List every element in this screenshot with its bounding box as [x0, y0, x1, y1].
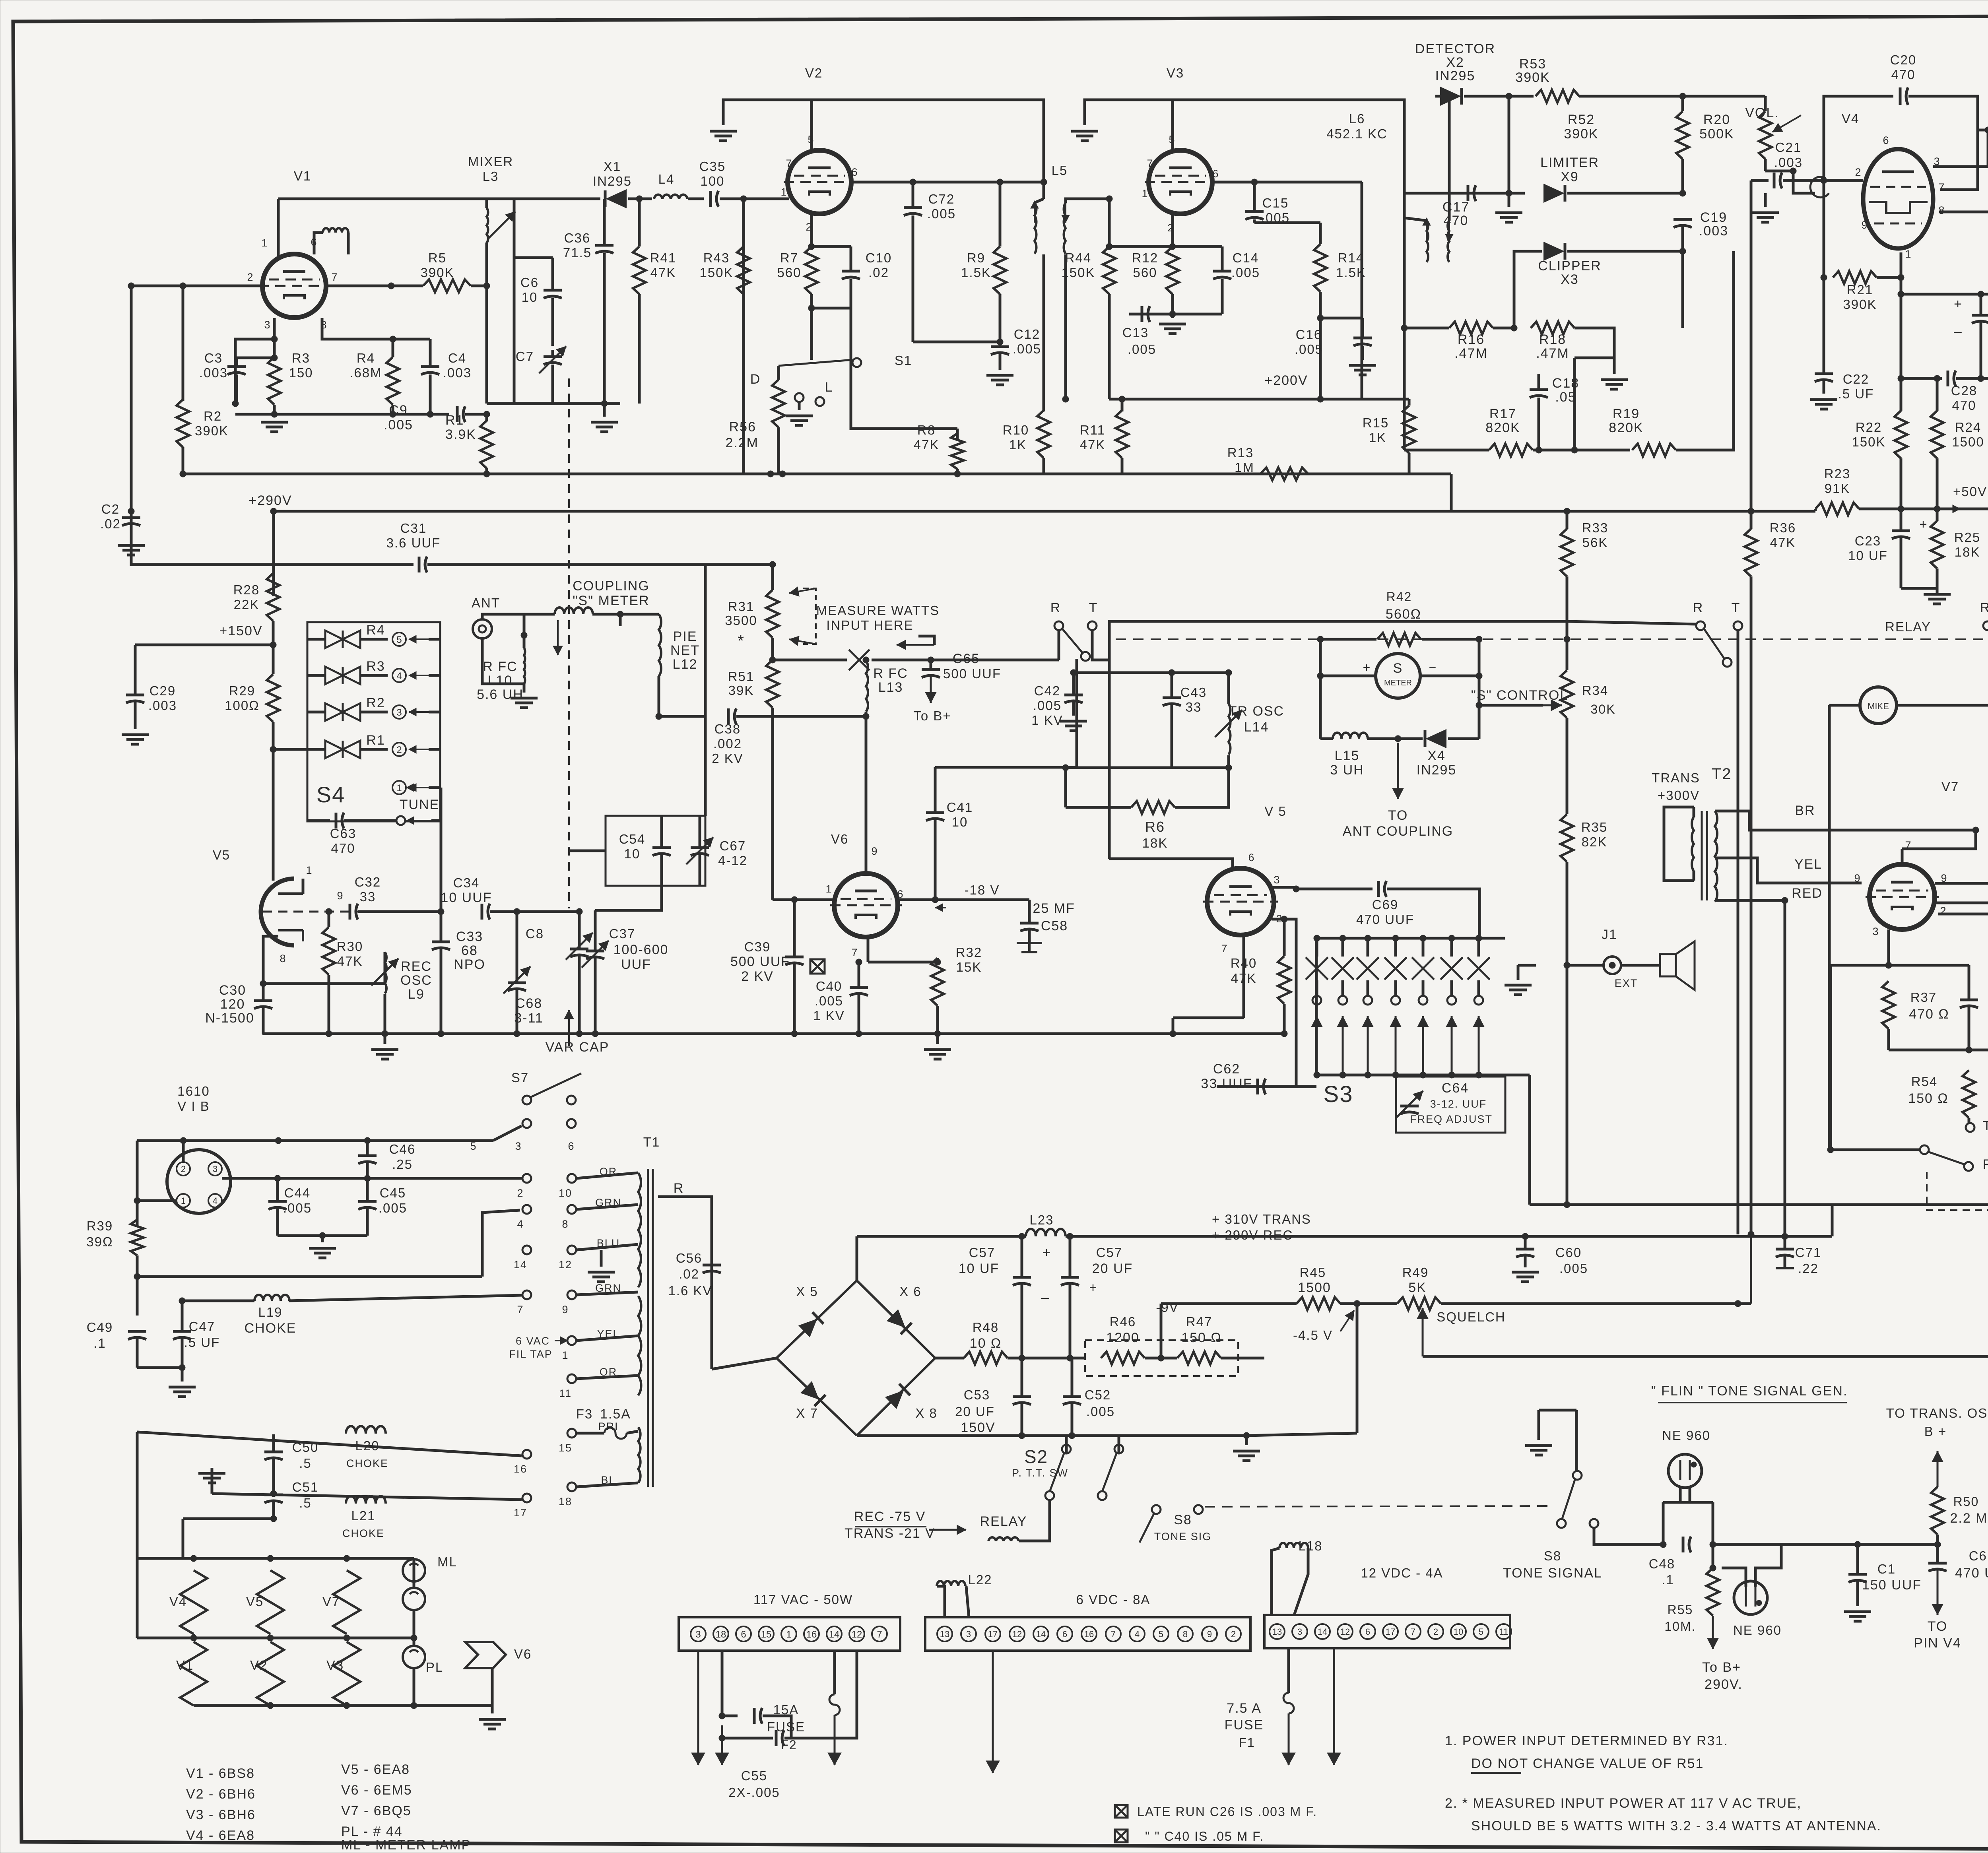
arrow S3 wiper	[1367, 1016, 1369, 1073]
svg-text:C15: C15	[1262, 196, 1289, 210]
wire	[429, 374, 432, 414]
wire	[273, 405, 276, 414]
svg-text:L21: L21	[351, 1508, 375, 1523]
junction	[1985, 127, 1988, 133]
svg-text:FIL TAP: FIL TAP	[509, 1348, 553, 1360]
svg-text:X 8: X 8	[915, 1406, 938, 1420]
junction	[1169, 669, 1175, 676]
arrow input here	[897, 644, 934, 646]
diode X8	[885, 1384, 910, 1409]
wire C56 net	[658, 1197, 712, 1369]
junction	[1070, 669, 1077, 676]
wire	[603, 199, 606, 245]
svg-text:VAR CAP: VAR CAP	[546, 1040, 610, 1055]
wire L3 down	[485, 243, 488, 404]
svg-text:R54: R54	[1911, 1074, 1938, 1089]
svg-text:470 UUF: 470 UUF	[1955, 1566, 1988, 1581]
junction	[1564, 1201, 1570, 1208]
svg-text:C31: C31	[400, 521, 427, 536]
capacitor C53	[1013, 1395, 1031, 1398]
heater V7	[333, 1570, 360, 1634]
svg-text:L12: L12	[673, 657, 698, 672]
tube V7	[1866, 864, 1939, 929]
bridge X6	[857, 1281, 935, 1358]
wire S3 top bus	[1316, 937, 1505, 940]
svg-text:D: D	[750, 372, 761, 387]
arrow R34 wiper	[1543, 704, 1562, 706]
junction	[592, 1030, 598, 1037]
wire	[793, 964, 796, 1034]
wire	[1477, 980, 1480, 996]
ground C47	[169, 1387, 196, 1397]
svg-text:C50: C50	[292, 1440, 319, 1455]
junction	[1119, 396, 1125, 402]
wire	[1784, 1236, 1786, 1249]
wire	[1936, 588, 1939, 593]
terminal 12VDC 11	[1496, 1624, 1511, 1639]
svg-text:10M.: 10M.	[1664, 1619, 1696, 1634]
junction	[767, 471, 774, 477]
wire	[628, 198, 652, 200]
arrow contact 5	[409, 638, 429, 640]
wire V2 pin5 up	[810, 100, 813, 150]
svg-text:R6: R6	[1145, 819, 1165, 835]
junction	[769, 657, 776, 663]
resistor R48	[964, 1352, 1008, 1364]
wire	[384, 1034, 386, 1044]
svg-text:14: 14	[1036, 1629, 1046, 1639]
wire	[934, 820, 937, 900]
svg-text:MIXER: MIXER	[468, 154, 514, 169]
svg-text:.25 MF: .25 MF	[1028, 901, 1075, 916]
terminal 12VDC 12	[1338, 1624, 1353, 1639]
arrow L6b	[1448, 219, 1450, 242]
capacitor C7 variable arrow	[539, 346, 566, 373]
wire measure watts	[773, 659, 847, 662]
junction	[1476, 702, 1482, 708]
wire	[136, 1637, 139, 1640]
capacitor C13	[1141, 306, 1143, 322]
arrow L5 down	[1065, 201, 1066, 223]
ground clipper	[1601, 380, 1628, 389]
wire R31 top	[771, 565, 774, 590]
arrow contact 3	[409, 711, 429, 713]
svg-text:13: 13	[1272, 1627, 1282, 1637]
capacitor C30	[254, 999, 272, 1002]
junction	[514, 1030, 520, 1037]
svg-text:EXT: EXT	[1615, 977, 1638, 989]
wire mike left	[1829, 704, 1860, 707]
junction	[344, 1702, 350, 1709]
wire	[1408, 453, 1411, 474]
svg-text:8: 8	[280, 953, 286, 964]
resistor R43	[737, 246, 750, 294]
svg-text:18: 18	[716, 1629, 726, 1640]
svg-text:7: 7	[331, 271, 338, 283]
resistor R21	[1833, 271, 1877, 284]
arrow 117 term18	[721, 1725, 723, 1765]
heater V5	[257, 1570, 284, 1634]
wire heater bottom rail	[194, 1704, 492, 1707]
capacitor C43	[1163, 697, 1181, 699]
wire	[1538, 398, 1540, 450]
svg-text:3: 3	[695, 1629, 701, 1640]
wire squelch loop	[1423, 1355, 1988, 1358]
wire	[1936, 1544, 1939, 1563]
wire	[429, 786, 440, 789]
contact S8b	[1194, 1505, 1203, 1514]
wire R24 top	[1936, 378, 1939, 411]
svg-text:R: R	[1983, 1157, 1988, 1172]
arrow to ant coupling	[1397, 743, 1399, 799]
wire meter box right	[1478, 639, 1481, 739]
wire gnd stub	[1538, 1410, 1540, 1440]
terminal 1	[177, 1194, 190, 1207]
svg-text:.47M: .47M	[1536, 346, 1569, 361]
wire heater top rail	[137, 1557, 414, 1560]
contact S8a	[1152, 1505, 1161, 1514]
svg-text:T: T	[1732, 600, 1741, 615]
diode X6	[887, 1310, 912, 1334]
wire C3 leg	[234, 364, 237, 404]
wire	[440, 788, 443, 821]
meter S METER	[1376, 654, 1420, 698]
stub C64	[1394, 1075, 1397, 1077]
resistor R12	[1166, 246, 1179, 294]
svg-text:R21: R21	[1847, 282, 1873, 297]
svg-text:-4.5 V: -4.5 V	[1293, 1328, 1333, 1343]
svg-text:V3: V3	[1167, 66, 1184, 80]
junction	[134, 1273, 140, 1280]
svg-text:1: 1	[780, 186, 787, 198]
svg-text:V5: V5	[213, 848, 230, 862]
stub BLU gnd	[600, 1250, 603, 1267]
wire	[1856, 1581, 1859, 1606]
capacitor C38	[727, 708, 730, 724]
wire	[638, 294, 641, 404]
wire X4 right	[1448, 737, 1479, 740]
arrow C8	[566, 933, 593, 960]
svg-text:R41: R41	[650, 250, 677, 265]
dashed path relay bottom	[1927, 1172, 1988, 1210]
svg-text:R33: R33	[1582, 520, 1609, 535]
wire	[1508, 193, 1510, 207]
svg-text:1. POWER INPUT DETERMINED BY: 1. POWER INPUT DETERMINED BY R31.	[1445, 1733, 1728, 1748]
wire	[1936, 509, 1939, 521]
junction	[932, 896, 938, 903]
contact S3	[1338, 996, 1347, 1005]
resistor R23	[1815, 503, 1859, 515]
wire C23-R25 bottom	[1901, 587, 1937, 590]
svg-text:"S" CONTROL: "S" CONTROL	[1471, 688, 1569, 703]
wire	[136, 1330, 139, 1333]
svg-text:7: 7	[786, 157, 792, 169]
svg-text:V1 - 6BS8: V1 - 6BS8	[186, 1766, 255, 1781]
wire C21 to V4 grid	[1783, 179, 1863, 182]
wire T pair B down	[1737, 630, 1739, 660]
junction	[1340, 1072, 1346, 1078]
svg-text:150 Ω: 150 Ω	[1908, 1091, 1949, 1106]
contact S8 top	[1573, 1471, 1582, 1480]
contact S7 b	[567, 1096, 576, 1104]
wire V1 pin8 to R4/C4	[322, 318, 430, 339]
svg-text:12: 12	[1012, 1629, 1022, 1639]
junction	[617, 611, 623, 617]
switch S3 element	[1412, 957, 1434, 980]
contact 1	[392, 781, 406, 794]
wire	[130, 525, 133, 540]
svg-text:L19: L19	[258, 1305, 282, 1319]
svg-text:V6: V6	[514, 1647, 532, 1661]
diode X5	[799, 1312, 823, 1337]
svg-text:X2: X2	[1446, 55, 1464, 70]
inductor L19	[254, 1295, 289, 1301]
arrow 6VDC down	[992, 1651, 994, 1773]
wire V4 pin3 up	[1933, 130, 1988, 167]
wire	[429, 674, 440, 677]
wire	[1681, 159, 1684, 193]
ground V3 top	[1071, 131, 1098, 141]
wire C30 to L9	[263, 982, 385, 985]
wire C49 to gnd	[137, 1366, 182, 1369]
inductor L15	[1333, 733, 1368, 739]
terminal 4	[208, 1194, 222, 1207]
junction	[779, 471, 786, 477]
resistor R42	[1377, 633, 1421, 646]
resistor R41	[633, 246, 646, 294]
wire V4 pin8 right	[1940, 212, 1988, 291]
wire L5 top	[1035, 199, 1044, 203]
svg-text:L13: L13	[878, 680, 903, 695]
wire meter left	[1320, 675, 1376, 677]
wire	[912, 182, 914, 208]
svg-text:2 KV: 2 KV	[741, 969, 774, 984]
wire left heater	[136, 1141, 139, 1226]
terminal 6VDC 8	[1178, 1626, 1193, 1642]
junction	[1978, 291, 1984, 297]
wire T pair A	[1092, 630, 1109, 660]
svg-text:L23: L23	[1029, 1213, 1054, 1227]
capacitor C25	[1960, 999, 1978, 1001]
svg-text:V 5: V 5	[1264, 804, 1287, 819]
arrow L6	[1426, 218, 1427, 243]
wire	[1936, 569, 1939, 588]
svg-text:R53: R53	[1519, 56, 1546, 72]
svg-text:.005: .005	[1295, 342, 1323, 357]
svg-text:68: 68	[461, 943, 478, 958]
wire R29 to V5 plate	[272, 879, 275, 881]
dashed line VAR CAP	[568, 378, 570, 908]
svg-text:C58: C58	[1041, 918, 1068, 933]
svg-text:47K: 47K	[650, 265, 676, 280]
svg-text:15: 15	[761, 1629, 772, 1640]
svg-text:2 KV: 2 KV	[712, 751, 744, 766]
svg-text:500K: 500K	[1699, 126, 1734, 142]
terminal 6VDC 4	[1130, 1626, 1145, 1642]
svg-text:3 UH: 3 UH	[1330, 763, 1364, 778]
svg-text:1: 1	[562, 1349, 569, 1361]
svg-text:1 KV: 1 KV	[813, 1008, 845, 1023]
svg-text:TRANS -21 V: TRANS -21 V	[845, 1526, 935, 1541]
wire mike net down	[1828, 705, 1831, 1150]
svg-text:To B+: To B+	[913, 708, 951, 723]
svg-text:.005: .005	[379, 1201, 407, 1215]
junction	[411, 1635, 417, 1641]
svg-text:2: 2	[396, 745, 402, 755]
wire	[771, 708, 774, 900]
terminal 117VAC 14	[827, 1626, 842, 1642]
arrow -18V	[935, 907, 946, 908]
svg-text:F3: F3	[576, 1407, 593, 1421]
svg-text:V1: V1	[294, 169, 311, 183]
svg-text:TRANS: TRANS	[1652, 770, 1700, 785]
svg-text:T: T	[1089, 600, 1098, 615]
wire	[485, 198, 488, 200]
terminal 117VAC 6	[736, 1626, 751, 1642]
svg-text:"S" METER: "S" METER	[573, 593, 649, 608]
junction	[1395, 735, 1401, 742]
wire R14 to C16	[1320, 317, 1363, 320]
wire	[1681, 227, 1684, 251]
svg-text:TO: TO	[1928, 1619, 1948, 1634]
wire S3 stub	[1422, 938, 1425, 957]
contact R pair C	[1983, 621, 1988, 630]
contact S3	[1474, 996, 1483, 1005]
capacitor C52	[1063, 1395, 1081, 1398]
wire	[777, 366, 780, 380]
svg-text:10: 10	[624, 846, 641, 861]
svg-text:R10: R10	[1003, 423, 1029, 437]
wire cathode to C30	[263, 936, 278, 1001]
svg-text:17: 17	[1386, 1627, 1395, 1637]
wire	[1968, 1069, 1971, 1072]
junction	[180, 283, 186, 289]
svg-text:10: 10	[559, 1187, 572, 1199]
svg-text:18K: 18K	[1955, 545, 1980, 559]
svg-text:1200: 1200	[1106, 1330, 1140, 1345]
svg-text:6 VAC: 6 VAC	[516, 1335, 550, 1347]
junction	[1401, 325, 1408, 331]
svg-text:R: R	[674, 1181, 684, 1196]
svg-text:L22: L22	[968, 1572, 992, 1587]
contact T1 14	[522, 1246, 531, 1254]
svg-text:+290V: +290V	[248, 493, 292, 508]
capacitor C15	[1245, 210, 1264, 213]
wire	[1530, 327, 1532, 330]
svg-text:1: 1	[396, 783, 402, 794]
junction	[1898, 506, 1904, 512]
junction	[364, 1175, 371, 1182]
svg-text:C35: C35	[699, 159, 726, 174]
svg-text:C32: C32	[355, 875, 381, 889]
capacitor C8 var	[570, 948, 588, 951]
junction	[1281, 1030, 1287, 1037]
tube V3	[1145, 150, 1216, 214]
svg-text:5: 5	[396, 634, 402, 645]
diode pair S4 R1	[325, 741, 360, 758]
svg-text:L14: L14	[1244, 720, 1269, 735]
svg-text:LATE RUN C26 IS .003 M F.: LATE RUN C26 IS .003 M F.	[1137, 1804, 1317, 1819]
capacitor C41	[926, 811, 944, 814]
capacitor C33	[432, 941, 450, 943]
junction	[1476, 673, 1482, 679]
svg-text:R12: R12	[1132, 250, 1159, 265]
wire V1 pin3 down	[235, 318, 274, 404]
wire	[262, 1032, 265, 1035]
svg-text:FUSE: FUSE	[1225, 1717, 1264, 1733]
ground BLU	[588, 1272, 615, 1282]
resistor R25	[1931, 521, 1943, 569]
wire	[688, 198, 704, 200]
svg-text:9: 9	[337, 890, 344, 902]
wire bottom rail left	[1066, 766, 1172, 769]
svg-text:3: 3	[213, 1164, 217, 1174]
capacitor C29	[126, 694, 144, 697]
svg-text:R7: R7	[780, 250, 798, 265]
wire	[211, 1468, 214, 1494]
contact S7 a	[522, 1096, 531, 1104]
wire mike right	[1897, 704, 1988, 707]
capacitor C71	[1776, 1248, 1794, 1251]
contact S2 d	[1098, 1491, 1107, 1500]
wire	[578, 912, 581, 949]
contact 3	[392, 705, 406, 719]
junction	[1243, 1432, 1250, 1439]
wire neon1 lead a	[1679, 1488, 1682, 1502]
svg-text:ANT COUPLING: ANT COUPLING	[1343, 824, 1453, 839]
arrow S3 wiper	[1316, 1016, 1318, 1073]
junction	[740, 196, 747, 202]
terminal T1 11	[567, 1374, 576, 1383]
resistor R9	[994, 246, 1006, 294]
wire	[912, 215, 914, 342]
wire	[1574, 328, 1614, 358]
wire	[1408, 399, 1411, 406]
svg-text:6: 6	[1365, 1627, 1370, 1637]
wire ANT down	[482, 638, 524, 684]
wire S8 gnd loop	[1539, 1409, 1576, 1412]
arrow 117 term3	[697, 1651, 699, 1765]
capacitor C17	[1467, 185, 1470, 201]
wire	[272, 722, 275, 881]
wire -9V to R45	[1161, 1302, 1297, 1305]
wire neon1 top rail	[1663, 1501, 1713, 1504]
inductor L4	[654, 194, 687, 199]
svg-text:2: 2	[181, 1164, 186, 1174]
svg-text:R56: R56	[729, 419, 756, 435]
terminal 117VAC 1	[781, 1626, 796, 1642]
fuse F2	[829, 1694, 840, 1715]
svg-text:X9: X9	[1561, 169, 1579, 184]
wire up to R contact	[1058, 626, 1060, 660]
svg-text:.005: .005	[1033, 698, 1062, 713]
wire J1 to speaker	[1621, 964, 1660, 967]
contact S2 a	[1062, 1445, 1071, 1453]
svg-text:C63: C63	[330, 826, 357, 841]
svg-text:C1: C1	[1877, 1562, 1896, 1576]
wire V3 plate load down	[1361, 182, 1363, 399]
wire	[1028, 930, 1031, 943]
wire C43-L14 bottom	[1172, 766, 1229, 769]
inductor L5 secondary	[1064, 203, 1066, 254]
junction	[1317, 636, 1324, 642]
wire L18	[1272, 1548, 1279, 1615]
wire box bottom	[1530, 1203, 1988, 1206]
capacitor C67	[691, 846, 709, 849]
wire	[366, 1163, 369, 1178]
wire to relay pair B	[1567, 621, 1696, 624]
junction	[390, 336, 396, 342]
